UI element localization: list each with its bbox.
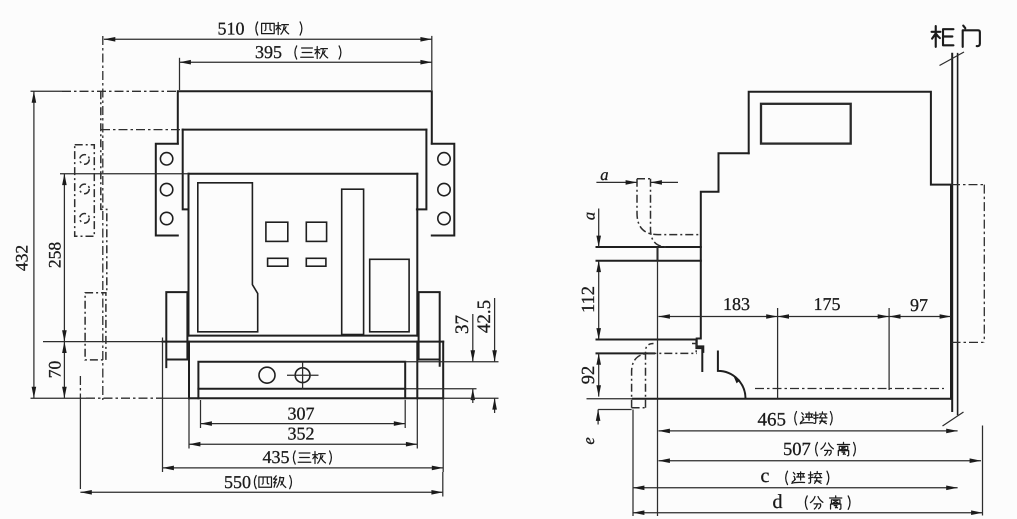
svg-text:92: 92 [579, 366, 599, 385]
svg-text:37: 37 [452, 315, 473, 334]
svg-text:395: 395 [255, 42, 282, 62]
svg-text:432: 432 [12, 245, 32, 271]
svg-text:d: d [773, 491, 783, 513]
svg-text:70: 70 [45, 361, 65, 379]
svg-text:183: 183 [723, 294, 750, 314]
svg-text:175: 175 [814, 294, 841, 314]
svg-text:465: 465 [758, 410, 787, 431]
svg-text:307: 307 [288, 403, 315, 423]
svg-text:258: 258 [45, 242, 65, 269]
svg-text:a: a [600, 165, 608, 184]
svg-text:550: 550 [224, 472, 251, 492]
svg-text:e: e [579, 437, 598, 444]
svg-text:435: 435 [263, 447, 290, 467]
svg-text:507: 507 [783, 440, 811, 460]
svg-text:42.5: 42.5 [474, 300, 495, 333]
svg-text:112: 112 [579, 286, 599, 313]
svg-text:97: 97 [910, 295, 928, 315]
svg-text:c: c [761, 465, 770, 487]
svg-text:352: 352 [288, 423, 315, 443]
svg-text:510: 510 [218, 18, 245, 38]
svg-text:a: a [580, 212, 599, 220]
